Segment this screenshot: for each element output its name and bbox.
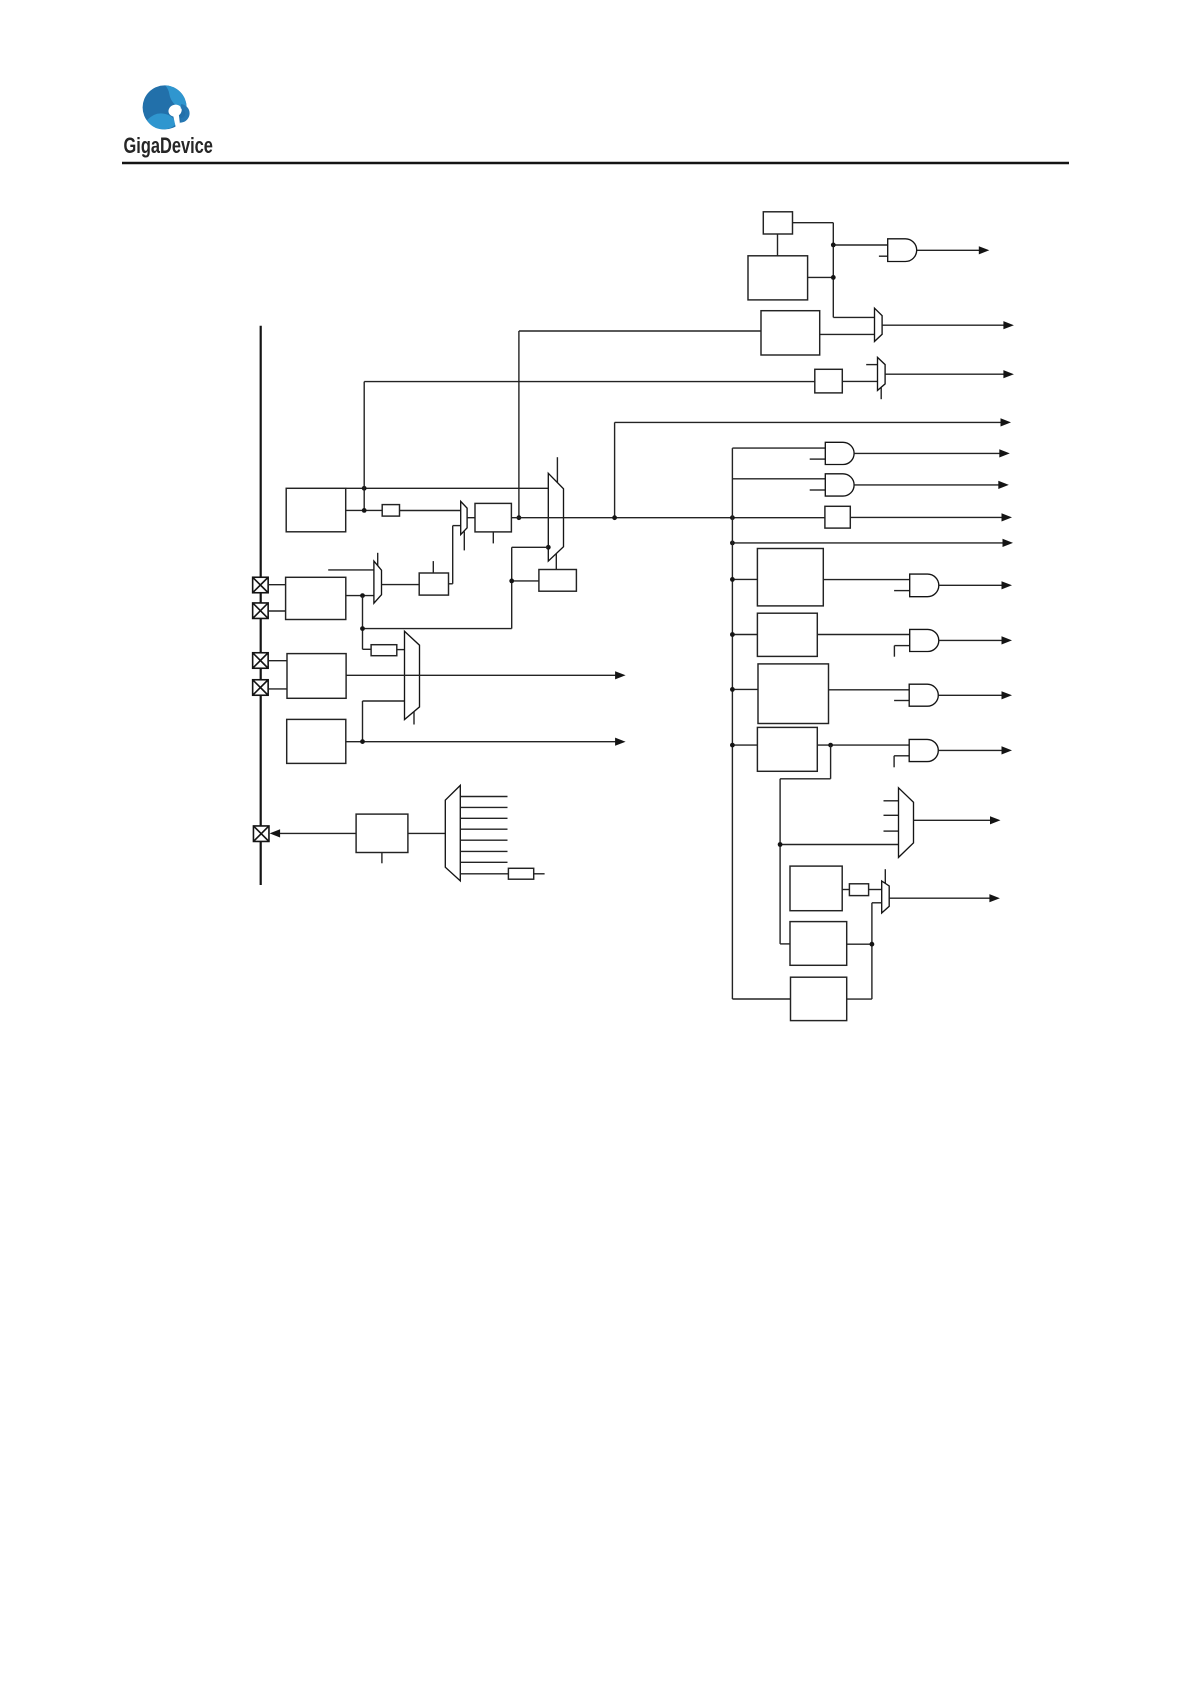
svg-text:GigaDevice: GigaDevice [124, 134, 213, 159]
